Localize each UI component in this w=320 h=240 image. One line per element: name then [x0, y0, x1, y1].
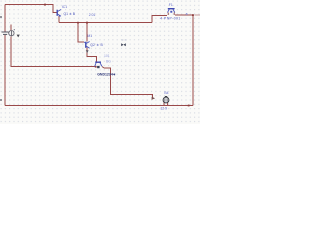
source B1 plus [14, 29, 15, 30]
wire Q2 base feed [78, 23, 84, 43]
svg-text:4-PNP-001: 4-PNP-001 [160, 16, 180, 20]
lamp top cap [165, 96, 167, 97]
svg-text:B4: B4 [164, 91, 168, 95]
svg-text:IC1: IC1 [62, 5, 67, 9]
label M1 [87, 34, 92, 38]
transistor Q2 [84, 42, 90, 49]
wire mid rail [59, 22, 152, 24]
sheet border tick upper left [0, 16, 2, 18]
polarity triangle [17, 35, 20, 38]
junction dot bottom rail [188, 105, 190, 107]
value Q1 [64, 12, 76, 16]
wire faint stub right edge [195, 14, 201, 16]
transistor T4 [95, 62, 104, 68]
wire top rail [5, 4, 54, 6]
net label faint [121, 39, 123, 40]
svg-text:Q2 ∗ B: Q2 ∗ B [90, 43, 103, 47]
wire lamp legs [164, 103, 168, 106]
transistor Q1 [57, 10, 61, 17]
label B4 [164, 91, 168, 95]
wire Q2 emitter path [87, 48, 97, 63]
junction dot mid rail [86, 22, 88, 24]
value 4-PNP-001 [160, 16, 180, 20]
svg-text:GND1234∗: GND1234∗ [97, 73, 116, 77]
wire base rail left [11, 37, 96, 67]
label 101 [104, 54, 110, 58]
current arrow down [86, 50, 89, 53]
svg-text:101: 101 [104, 54, 110, 58]
battery V1 plates [2, 32, 9, 34]
wire T3 collector to right [175, 14, 193, 16]
junction dot top rail [44, 4, 46, 6]
wire left supply upper [4, 5, 6, 32]
wire bottom rail [5, 105, 193, 107]
svg-text:M1: M1 [87, 34, 92, 38]
label BG [106, 60, 111, 64]
wire riser to T3 [152, 16, 167, 23]
wire source stub [10, 25, 12, 31]
lamp inner bars [165, 98, 167, 101]
junction dot right top corner [192, 14, 194, 16]
value GND1234 [97, 73, 116, 77]
sheet border tick lower left [0, 99, 2, 101]
wire Q1 base drop [53, 5, 57, 13]
sheet background [0, 0, 200, 124]
label IC1 [62, 5, 67, 9]
wire Q1 emitter down [58, 16, 60, 23]
svg-text:BG: BG [106, 60, 111, 64]
wire left supply lower [4, 35, 6, 106]
svg-text:2.01: 2.01 [89, 13, 96, 17]
pin label a [186, 12, 188, 16]
value 2.01 [89, 13, 96, 17]
value Q2 [90, 43, 103, 47]
junction dot base rail end [95, 66, 97, 68]
svg-text:Q1 ∗ B: Q1 ∗ B [64, 12, 76, 16]
label F1 [169, 3, 173, 7]
value 12 9 [160, 106, 167, 110]
svg-text:F1: F1 [169, 3, 173, 7]
transistor T3 [168, 9, 175, 15]
svg-text:a: a [186, 12, 188, 16]
source B1 inner mark [10, 31, 12, 36]
wire T4 output [104, 68, 153, 98]
wire Q2 feed [86, 23, 88, 42]
svg-text:12 9: 12 9 [160, 106, 167, 110]
lamp R4 body [163, 97, 169, 103]
wire right vertical [192, 15, 194, 106]
source B1 circle [9, 31, 14, 36]
net bowtie marker [121, 43, 126, 46]
junction dot Q2 base rail [77, 22, 79, 24]
feed arrow right [152, 97, 156, 100]
